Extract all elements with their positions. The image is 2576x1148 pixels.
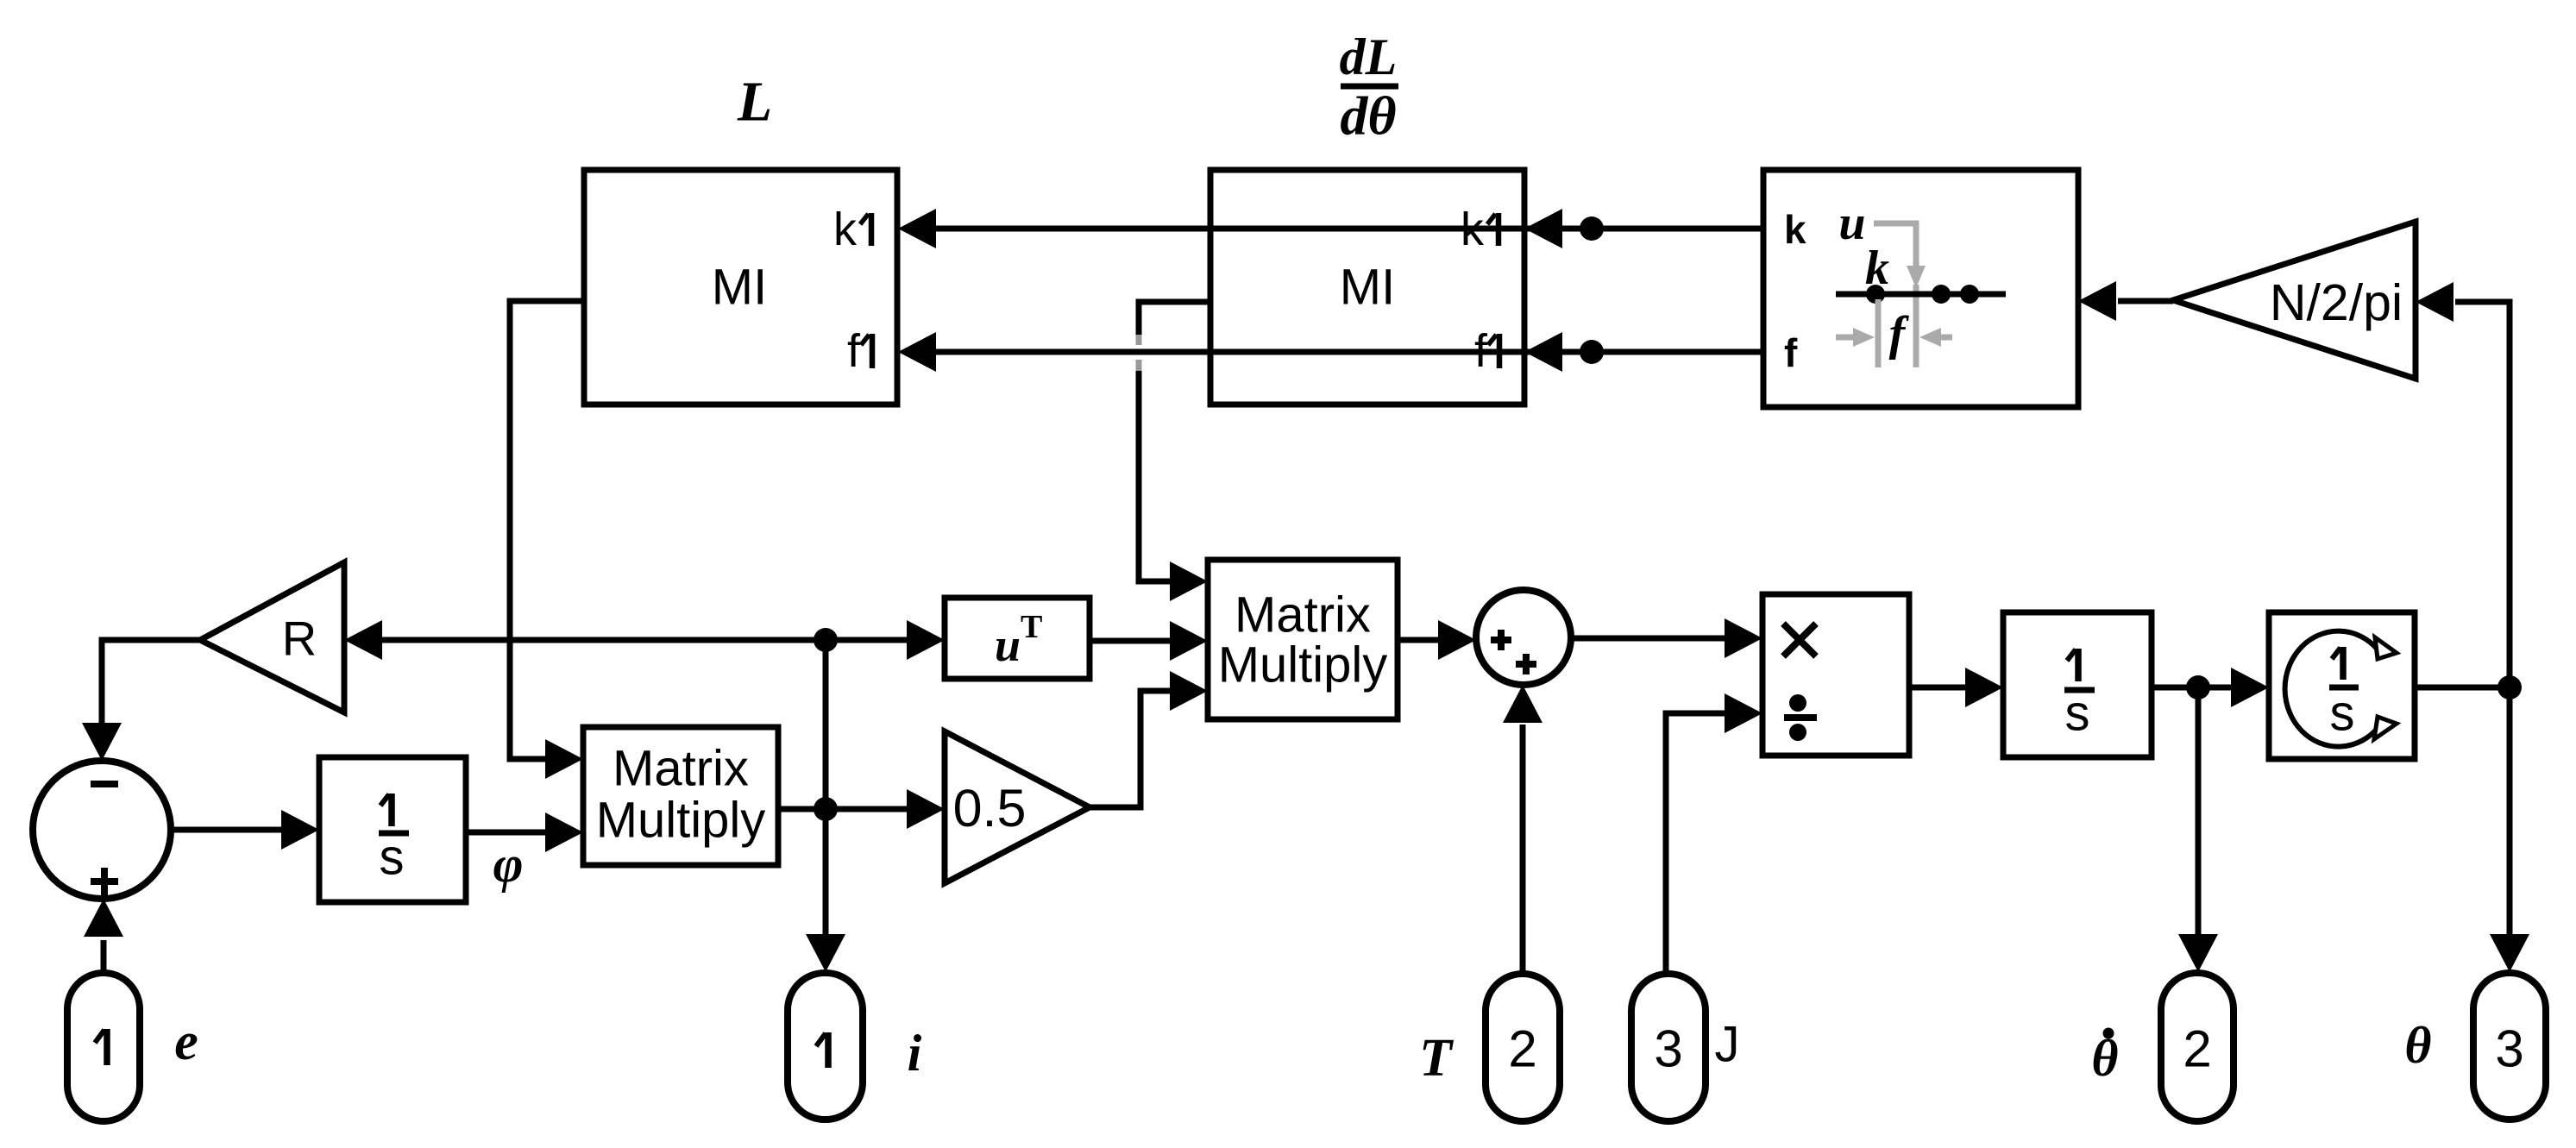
wire wrapped integrator to theta junction — [2415, 685, 2510, 691]
wire MI1 output down to MM1 input1 — [510, 301, 584, 779]
gain N/2/pi triangle — [2173, 222, 2416, 379]
label theta — [2404, 1017, 2431, 1074]
integrator 1/s (theta-dot) — [2003, 612, 2152, 757]
block MI1 (matrix inverse L) — [584, 170, 897, 405]
wire MM2 output to sum2 — [1398, 620, 1476, 660]
svg-text:k: k — [1784, 207, 1806, 252]
block MI2 (matrix inverse dL/dtheta) — [1210, 170, 1524, 405]
label i — [908, 1025, 922, 1082]
label selector ports and icon — [1784, 197, 2006, 375]
wire T input up to sum2 — [1503, 685, 1542, 974]
svg-text:N/2/pi: N/2/pi — [2270, 274, 2403, 331]
label R — [282, 612, 317, 666]
svg-text:T: T — [1419, 1029, 1454, 1088]
svg-text:R: R — [282, 612, 317, 666]
svg-text:Multiply: Multiply — [596, 793, 766, 849]
wire N/2/pi output to selector — [2078, 281, 2173, 321]
svg-text:2: 2 — [2183, 1020, 2211, 1078]
label MM2 text — [1218, 587, 1388, 693]
outport 3 (theta) — [2473, 973, 2546, 1120]
gain 0.5 triangle — [945, 731, 1090, 883]
svg-text:dL: dL — [1340, 28, 1398, 85]
svg-text:f: f — [1474, 325, 1488, 377]
wire junction up to i row — [823, 640, 829, 809]
port numbers — [95, 1020, 2524, 1078]
inport 1 (e) — [67, 973, 140, 1121]
product block x/div — [1762, 594, 1909, 756]
gain R triangle — [200, 562, 344, 712]
block Matrix Multiply MM2 — [1208, 560, 1398, 719]
svg-text:Matrix: Matrix — [613, 741, 749, 797]
wire k1 row: selector k to MI2 and MI1 — [898, 209, 1763, 248]
junction dot i row — [814, 797, 838, 821]
svg-text:θ: θ — [2404, 1017, 2431, 1074]
wire 0.5 output up to MM2 input3 — [1090, 671, 1208, 807]
label J — [1715, 1017, 1740, 1073]
svg-text:MI: MI — [1340, 260, 1395, 316]
label u-transpose text — [995, 609, 1042, 671]
svg-text:MI: MI — [712, 260, 767, 316]
label L title — [737, 71, 772, 134]
svg-text:u: u — [995, 619, 1021, 671]
junction dot theta-dot — [2186, 675, 2210, 699]
block u-transpose — [945, 598, 1090, 679]
wire theta feedback up to N/2/pi — [2416, 282, 2510, 687]
label e — [174, 1013, 198, 1071]
svg-text:s: s — [380, 830, 405, 886]
outport 1 (i) — [788, 973, 863, 1120]
svg-text:3: 3 — [1654, 1020, 1682, 1078]
svg-text:T: T — [1021, 609, 1042, 645]
wire integrator2 to wrapped integrator — [2152, 668, 2269, 707]
wire MM1 output to junction and 0.5 gain — [778, 789, 945, 829]
label phi — [493, 836, 523, 893]
integrator 1/s (phi) — [319, 757, 466, 902]
wire junction down to outport theta — [2490, 687, 2529, 972]
svg-text:Multiply: Multiply — [1218, 637, 1388, 693]
wire MI2 output down to MM2 input1 (with gap at f1 crossing) — [1139, 302, 1210, 601]
label MI1 text — [712, 204, 872, 377]
wire i row to u-transpose — [826, 620, 945, 660]
wire junction down to outport theta-dot — [2178, 687, 2218, 972]
wire f1 row: selector f to MI2 and MI1 — [898, 332, 1763, 372]
svg-text:s: s — [2065, 686, 2090, 742]
svg-text:3: 3 — [2495, 1020, 2523, 1078]
inport 2 (T) — [1486, 974, 1560, 1121]
wire product to integrator2 — [1909, 668, 2003, 707]
svg-text:J: J — [1715, 1017, 1740, 1073]
svg-text:i: i — [908, 1025, 922, 1082]
label MM1 text — [596, 741, 766, 849]
svg-text:2: 2 — [1508, 1020, 1536, 1078]
label 0.5 — [953, 779, 1027, 837]
junction dot i upper — [814, 628, 838, 652]
label integrator2 fraction — [2065, 649, 2090, 742]
svg-text:s: s — [2330, 686, 2355, 742]
label T — [1419, 1029, 1454, 1088]
wire u-transpose to MM2 input2 — [1090, 621, 1208, 661]
label wrapped integrator fraction — [2330, 647, 2355, 742]
label MI2 text — [1340, 204, 1499, 377]
wire e input to sum1 — [84, 899, 123, 973]
svg-text:0.5: 0.5 — [953, 779, 1027, 837]
wire junction down to outport i — [806, 809, 845, 972]
wire i row to R gain — [344, 620, 826, 660]
label dL/dtheta title — [1340, 28, 1398, 147]
svg-text:e: e — [174, 1013, 198, 1071]
wire sum1 to integrator1 — [171, 810, 319, 850]
wire sum2 to product input1 — [1571, 618, 1762, 658]
junction dot theta — [2497, 675, 2522, 699]
svg-text:Matrix: Matrix — [1235, 587, 1371, 643]
svg-text:u: u — [1838, 197, 1865, 250]
svg-text:k: k — [833, 204, 858, 255]
outport 2 (theta-dot) — [2161, 973, 2234, 1121]
svg-text:k: k — [1461, 204, 1485, 255]
block Matrix Multiply MM1 — [583, 727, 778, 865]
label theta-dot — [2091, 1028, 2118, 1088]
label integrator1 fraction — [380, 794, 405, 886]
svg-text:f: f — [847, 325, 861, 377]
sum block S2 — [1476, 590, 1571, 685]
svg-text:L: L — [737, 71, 772, 134]
svg-text:θ: θ — [2091, 1030, 2118, 1087]
svg-text:f: f — [1784, 330, 1798, 375]
sum block S1 — [33, 761, 171, 899]
svg-text:φ: φ — [493, 836, 523, 893]
wire R output down to sum1 — [82, 640, 200, 761]
svg-text:dθ: dθ — [1340, 85, 1396, 147]
wire J input up to product input2 — [1666, 693, 1762, 974]
block selector (index vector) — [1763, 170, 2078, 407]
label N/2/pi — [2270, 274, 2403, 331]
wire integrator1 (phi) to MM1 input2 — [466, 812, 583, 852]
block wrapped integrator 1/s — [2269, 612, 2415, 759]
inport 3 (J) — [1631, 974, 1706, 1121]
